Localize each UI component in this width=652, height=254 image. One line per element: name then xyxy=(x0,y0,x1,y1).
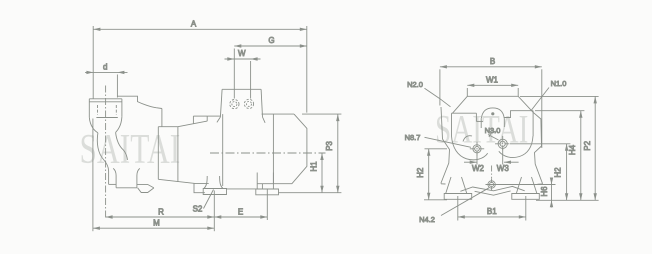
svg-text:R: R xyxy=(158,207,164,216)
svg-text:B: B xyxy=(490,57,495,66)
svg-text:H1: H1 xyxy=(310,161,319,172)
svg-text:N2.0: N2.0 xyxy=(407,80,423,89)
svg-text:M: M xyxy=(153,219,160,228)
svg-text:S2: S2 xyxy=(193,205,203,214)
svg-text:H4: H4 xyxy=(568,144,577,155)
svg-text:E: E xyxy=(238,207,243,216)
svg-text:W3: W3 xyxy=(497,164,510,173)
svg-text:N3.0: N3.0 xyxy=(485,126,501,135)
svg-text:SAITAI: SAITAI xyxy=(80,127,181,173)
svg-text:N8.7: N8.7 xyxy=(405,133,421,142)
svg-text:W2: W2 xyxy=(472,164,485,173)
svg-text:d: d xyxy=(103,62,107,71)
svg-text:W: W xyxy=(238,49,246,58)
svg-text:P3: P3 xyxy=(325,141,334,151)
svg-text:A: A xyxy=(191,20,197,29)
svg-text:B1: B1 xyxy=(487,207,497,216)
svg-text:SAITAI: SAITAI xyxy=(435,107,528,152)
svg-text:H6: H6 xyxy=(540,186,549,197)
svg-text:H2: H2 xyxy=(416,167,425,178)
svg-text:H2: H2 xyxy=(553,167,562,178)
svg-text:N1.0: N1.0 xyxy=(551,79,567,88)
svg-text:N4.2: N4.2 xyxy=(419,215,435,224)
svg-text:G: G xyxy=(268,36,274,45)
svg-text:P2: P2 xyxy=(583,140,592,150)
svg-text:W1: W1 xyxy=(486,76,499,85)
